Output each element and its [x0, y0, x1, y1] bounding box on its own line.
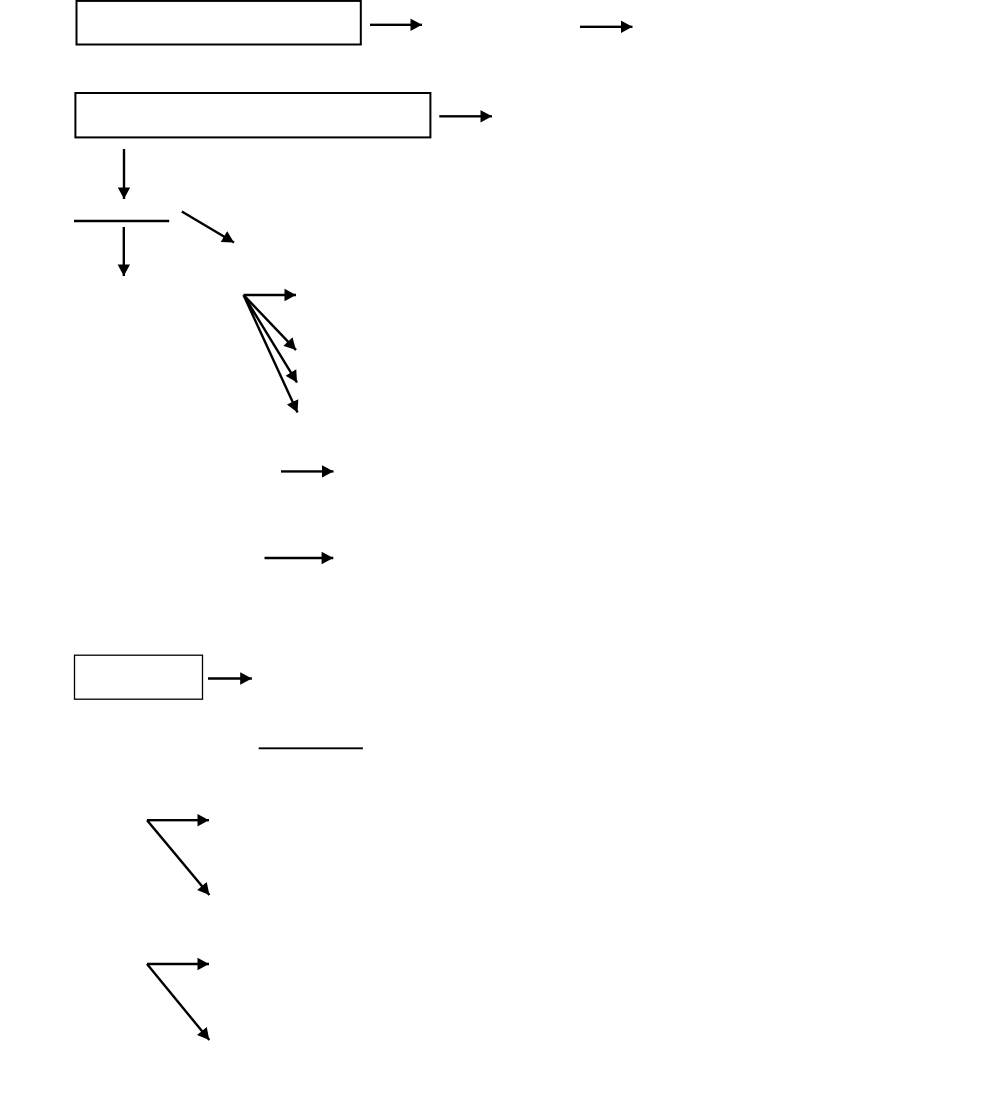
box B2	[75, 93, 430, 137]
box B1	[77, 1, 361, 45]
arrow A6	[182, 212, 234, 243]
arrow A12	[265, 557, 334, 559]
arrow A1	[370, 24, 422, 26]
arrow A7	[244, 294, 297, 296]
arrow A14	[147, 819, 209, 821]
arrow A4	[123, 149, 125, 199]
line L1	[74, 220, 169, 222]
arrow A15	[147, 820, 209, 895]
arrow A2	[580, 26, 633, 28]
box B3	[75, 655, 203, 699]
arrow A9	[244, 295, 298, 383]
line L2	[259, 747, 363, 749]
arrow A8	[244, 295, 297, 350]
arrow A3	[439, 115, 492, 117]
arrow A11	[281, 470, 334, 472]
arrow A10	[244, 295, 298, 413]
arrow A13	[208, 677, 252, 679]
arrow A5	[123, 227, 125, 276]
arrow A17	[147, 964, 209, 1040]
arrow A16	[147, 963, 209, 965]
